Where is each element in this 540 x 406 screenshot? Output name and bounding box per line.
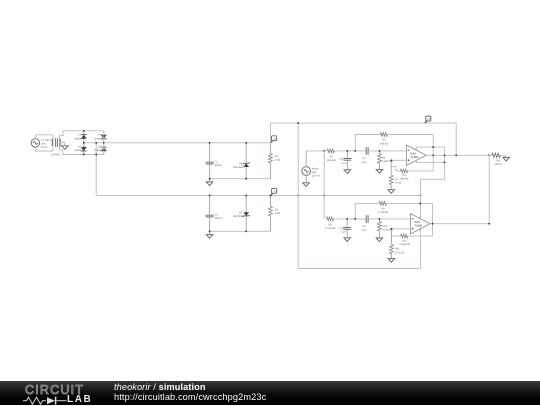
svg-text:R8: R8 [329,223,333,226]
node dots op-amp2 [390,202,490,229]
svg-text:330 µF: 330 µF [215,164,224,167]
wire output to bottom op-amp [488,155,490,223]
resistor R3 [378,151,394,170]
svg-text:C2: C2 [215,213,219,216]
node dots signal [323,150,380,152]
svg-text:1N4733A: 1N4733A [233,166,244,169]
ground (C1) [206,182,213,186]
wire op-amp1 V+ [416,146,444,148]
flag -9 [271,188,277,195]
ground (C2) [206,235,213,239]
capacitor C1 [206,143,223,179]
wire signal top [306,150,406,152]
svg-text:17.99 kΩ: 17.99 kΩ [378,211,389,214]
resistor R20 load [489,153,504,166]
wire secondary bottom to bridge [60,146,104,154]
wire power routing right [421,147,445,268]
wire signal bottom [334,218,411,220]
wire op-amp1 output [426,154,489,156]
diode D4 [94,131,107,143]
capacitor C4 [339,219,351,238]
svg-text:R20: R20 [496,159,501,162]
svg-text:604 kΩ: 604 kΩ [380,142,388,145]
svg-text:2 kΩ: 2 kΩ [275,159,280,162]
zener D7 [233,195,250,231]
resistor R5 [327,149,335,162]
flag +9 right [425,116,431,123]
node dots signal bottom [346,218,380,220]
wire bridge right edge [103,131,105,155]
voltage source V1 [31,135,53,151]
svg-text:D5: D5 [239,162,243,165]
wire op-amp1 +input [391,159,406,161]
wire bridge mid to lower rail [95,143,97,196]
flag +9 [271,136,277,143]
svg-text:C5: C5 [362,157,366,160]
wire feedback2 vertical [432,203,434,236]
wire bottom section bottom [210,230,271,232]
resistor R1 [269,143,281,179]
svg-text:1 µF: 1 µF [341,231,347,234]
svg-text:D7: D7 [239,212,243,215]
resistor R11 [390,229,404,259]
node dots rail1 [209,142,247,180]
svg-text:330 µF: 330 µF [215,217,224,220]
resistor R12 [378,219,393,238]
resistor R8 [325,217,336,230]
svg-text:TL081: TL081 [410,155,419,159]
music source V2 [302,151,321,183]
svg-text:R7: R7 [395,178,399,181]
svg-text:17.99 kΩ: 17.99 kΩ [325,227,336,230]
wire op-amp2 output [430,223,489,225]
svg-text:50 Hz: 50 Hz [41,146,48,149]
node dot [297,122,299,124]
ground (R12) [376,238,383,242]
node dots op-amp1 [390,146,490,163]
wire rail2 -9 [96,194,420,196]
wire +9 distribution top [270,123,456,155]
svg-text:R9: R9 [381,208,385,211]
ground (R3) [376,170,383,174]
wire op-amp1 V- [416,161,444,163]
resistor R9 feedback [355,202,432,219]
svg-text:R4: R4 [382,139,386,142]
ground (music) [303,183,310,187]
svg-text:sine: sine [41,143,46,146]
svg-text:R6: R6 [403,174,407,177]
svg-text:220 Hz: 220 Hz [312,175,321,178]
wire center tap [60,143,65,146]
svg-text:1 µF: 1 µF [341,162,347,165]
wire bridge mid left node [84,142,104,144]
svg-text:D3: D3 [98,146,102,149]
node dots rail2 [209,194,422,232]
svg-text:+9: +9 [427,117,431,121]
svg-text:D2: D2 [78,146,82,149]
svg-text:1N4001: 1N4001 [74,137,84,140]
svg-text:R5: R5 [330,155,334,158]
capacitor C5 [361,147,368,164]
svg-text:1N4001: 1N4001 [94,149,104,152]
wire rail3 bottom [298,268,420,270]
wire branch to bottom amp [324,151,326,219]
svg-text:C3: C3 [340,158,344,161]
svg-text:+9: +9 [272,137,276,141]
resistor R2 [269,195,281,231]
transformer XFMR1 [51,138,60,156]
wire feedback vertical [432,135,434,171]
svg-text:XFMR1: XFMR1 [51,154,60,157]
resistor R7 [389,160,401,189]
zener D5 [233,143,250,179]
ground (C3) [344,170,351,174]
svg-text:C4: C4 [339,227,343,230]
svg-text:17.99 kΩ: 17.99 kΩ [399,243,410,246]
svg-text:R1: R1 [275,155,279,158]
resistor R4 feedback [355,133,433,151]
svg-text:604 kΩ: 604 kΩ [400,178,408,181]
capacitor C2 [206,195,223,231]
svg-text:C6: C6 [362,225,366,228]
svg-text:2 kΩ: 2 kΩ [275,212,280,215]
svg-text:V1 240 V: V1 240 V [41,139,52,142]
wire secondary top to bridge [60,131,104,139]
svg-text:100 Ω: 100 Ω [495,163,502,166]
svg-text:TL081: TL081 [414,224,423,228]
capacitor C3 [340,151,352,170]
ground (center tap) [62,146,69,150]
svg-text:D1: D1 [78,134,82,137]
svg-text:R11: R11 [395,248,400,251]
svg-text:604 kΩ: 604 kΩ [327,159,335,162]
ground (R11) [388,259,395,263]
diode D2 [74,143,87,155]
svg-text:1N4001: 1N4001 [94,137,104,140]
diode D1 [74,131,87,143]
svg-text:C1: C1 [215,160,219,163]
svg-text:1 µF: 1 µF [361,161,367,164]
svg-text:1N4001: 1N4001 [74,149,84,152]
svg-text:D4: D4 [98,134,102,137]
resistor R10 [391,234,432,246]
wire op-amp2 +input [391,228,410,230]
resistor R6 [391,167,433,181]
svg-text:R10: R10 [402,240,407,243]
ground (C4) [344,238,351,242]
capacitor C6 [361,215,368,232]
node dots bridge [83,130,105,156]
svg-text:-9: -9 [273,190,276,194]
wire rail1 +9 [104,142,271,144]
diode D3 [94,143,107,155]
svg-text:17.9 kΩ: 17.9 kΩ [395,251,404,254]
op-amp OA2 [410,214,430,234]
svg-text:1 µF: 1 µF [361,229,367,232]
wire left drop [297,123,299,268]
svg-text:1N4733A: 1N4733A [233,215,244,218]
svg-text:52 kΩ: 52 kΩ [395,182,402,185]
ground (R7) [388,190,395,194]
svg-text:R2: R2 [275,208,279,211]
wire top section bottom [210,178,271,180]
op-amp OA1 [407,145,427,165]
ground (load) [503,155,510,161]
svg-text:R12: R12 [382,225,387,228]
